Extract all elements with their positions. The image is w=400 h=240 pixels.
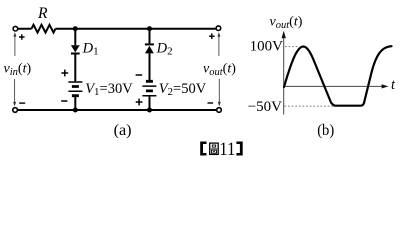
plus top-right — [209, 33, 215, 39]
diode D2 — [145, 43, 154, 45]
top wire — [18, 28, 217, 30]
x-axis — [284, 85, 383, 87]
minus V2 — [136, 74, 143, 76]
plus V1 — [61, 70, 68, 77]
battery V1 — [68, 82, 82, 91]
svg-text:−50V: −50V — [248, 99, 282, 115]
terminal top-left — [13, 26, 18, 31]
wire D2 to battery — [149, 53, 151, 80]
caption glyph 圖 — [210, 143, 219, 154]
minus bottom-left — [19, 102, 25, 104]
svg-text:R: R — [37, 5, 48, 22]
caption bracket left — [200, 142, 206, 156]
waveform — [284, 46, 392, 105]
svg-text:vin(t): vin(t) — [4, 62, 32, 79]
minus V1 — [61, 100, 67, 102]
arrow down to bottom-left terminal — [14, 79, 16, 103]
node junction dot bottom D2 — [147, 108, 152, 113]
plus top-left — [19, 34, 25, 40]
wire D1 to battery — [74, 54, 76, 82]
terminal bottom-right — [217, 108, 222, 113]
svg-text:(a): (a) — [114, 122, 132, 139]
svg-text:100V: 100V — [250, 39, 284, 55]
arrow up to top-right terminal — [218, 36, 220, 57]
svg-text:11: 11 — [219, 140, 235, 158]
node junction dot top D1 — [73, 26, 78, 31]
plus V2 — [136, 99, 143, 106]
dashed 100V level — [285, 46, 299, 48]
node junction dot bottom D1 — [73, 108, 78, 113]
svg-text:(b): (b) — [317, 122, 334, 139]
resistor R — [32, 25, 56, 33]
bottom wire — [17, 109, 216, 111]
caption bracket right — [236, 142, 242, 156]
node junction dot top D2 — [147, 26, 152, 31]
wire battery V1 to bottom — [74, 97, 76, 110]
svg-text:V1=30V: V1=30V — [85, 81, 133, 98]
arrow up to top-left terminal — [14, 36, 16, 57]
wire D1 branch upper — [74, 29, 76, 46]
y-axis — [283, 36, 285, 115]
arrow down to bottom-right terminal — [218, 79, 220, 103]
terminal top-right — [216, 26, 221, 31]
wire battery V2 to bottom — [149, 96, 151, 110]
diode D1 — [71, 45, 80, 52]
wire D2 branch upper — [149, 29, 151, 45]
svg-text:V2=50V: V2=50V — [159, 81, 207, 98]
battery V2 — [146, 81, 153, 91]
minus bottom-right — [208, 102, 214, 104]
dashed -50V level — [285, 105, 334, 107]
terminal bottom-left — [13, 108, 18, 113]
